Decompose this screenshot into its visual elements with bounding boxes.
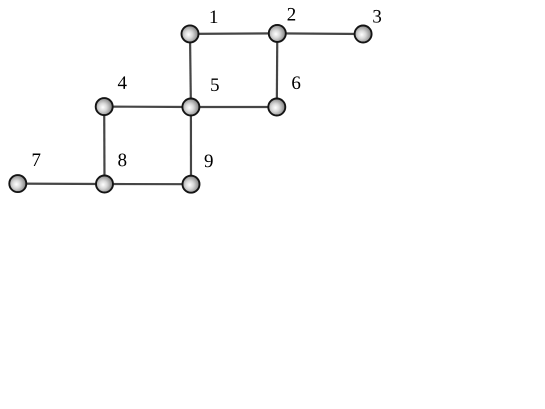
wire 2-3 [277,32,363,35]
label 7 [33,154,41,166]
label 5 [211,78,219,91]
label 4 [118,76,127,89]
node 4 [96,98,113,115]
node 3 [355,26,372,43]
node 7 [9,175,26,192]
wire 1-5 [189,34,192,107]
node 5 [182,99,199,116]
node 2 [269,25,286,42]
wire 7-8 [18,183,105,186]
wire 2-6 [276,33,279,107]
wire 4-5 [104,105,191,108]
node 8 [96,176,113,193]
wire 1-2 [190,32,277,35]
wire 5-6 [191,106,277,108]
wire 8-9 [105,183,192,185]
wire 4-8 [103,107,106,184]
wire 5-9 [190,107,192,184]
node 1 [182,25,199,42]
label 9 [205,154,213,167]
label 3 [373,10,381,23]
label 1 [211,10,218,23]
node 9 [183,176,200,193]
node 6 [268,99,285,116]
label 2 [288,8,296,21]
label 6 [292,76,300,89]
label 8 [118,153,126,166]
